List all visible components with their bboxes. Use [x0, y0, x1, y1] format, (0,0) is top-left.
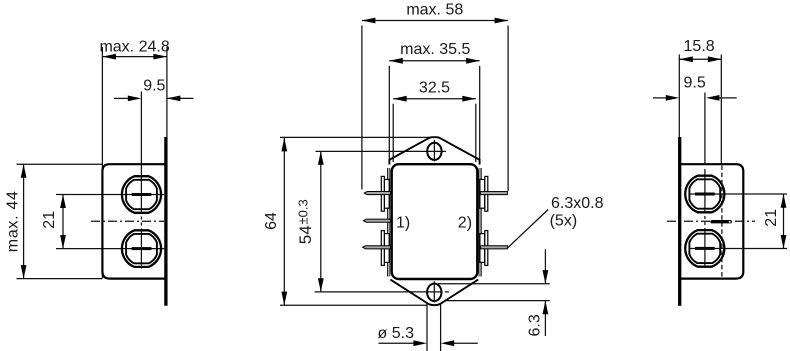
- left view: dimension line 21 with arrowheads: [62, 195, 64, 249]
- right view: extension line upper socket center: [690, 193, 787, 195]
- center view: hole diameter extension line right: [440, 303, 442, 351]
- left view: extension line body top: [17, 163, 103, 165]
- center view: extension line bottom hole center: [315, 291, 443, 293]
- svg-text:max. 58: max. 58: [406, 2, 463, 19]
- center view: flange wrap line left: [387, 168, 389, 277]
- center view: top mounting tab outline: [389, 137, 479, 164]
- left view: extension line at flange right face: [166, 47, 168, 140]
- right view: lower socket slot bar: [695, 247, 715, 250]
- center view: extension line 6.3 bottom: [446, 300, 550, 302]
- svg-text:21: 21: [763, 209, 780, 227]
- left view: extension line upper socket center: [56, 194, 164, 196]
- left view: dimension line 9.5 right arrow: [167, 97, 194, 99]
- center view: upper left terminal bracket: [384, 179, 389, 208]
- right view: extension line 15.8 right: [720, 55, 722, 164]
- center view: filter body outline: [392, 164, 478, 279]
- right view: upper socket outer outline: [685, 176, 724, 213]
- left view: mounting flange plate: [164, 137, 167, 306]
- center view: dimension line max. 35.5 with arrowheads: [389, 60, 479, 62]
- svg-text:9.5: 9.5: [143, 77, 165, 94]
- center view: extension line right pin: [507, 26, 509, 192]
- left view: upper socket outer outline: [122, 176, 161, 213]
- svg-text:ø 5.3: ø 5.3: [378, 325, 415, 342]
- center view: top mounting hole: [427, 143, 441, 160]
- left view: upper socket slot bar: [132, 193, 152, 196]
- right view: extension line lower socket center: [690, 248, 787, 250]
- right view: dimension line 21 with arrowheads: [783, 194, 785, 248]
- center view: upper left terminal blade: [381, 176, 384, 211]
- center view: flange wrap line right: [480, 168, 482, 277]
- center view: left pin: [363, 219, 390, 222]
- right view: mounting flange plate: [678, 137, 681, 306]
- center view: right pin: [481, 246, 508, 249]
- center view: left pin: [363, 246, 391, 249]
- right view: hidden edge dashed line: [721, 166, 723, 279]
- center view: dimension line 64 with arrowheads: [283, 138, 285, 305]
- center view: dimension line 54 with arrowheads: [320, 151, 322, 292]
- center view: extension line top hole center: [316, 150, 446, 152]
- center view: leader line terminal size: [508, 210, 549, 249]
- left view: horizontal centerline dash-dot: [91, 220, 164, 222]
- center view: lower right terminal bracket: [480, 234, 485, 263]
- right view: dimension line 15.8 with arrowheads: [679, 58, 721, 60]
- center view: dimension arrow ø 5.3 left: [379, 342, 415, 344]
- left view: dimension line 9.5 left arrow: [114, 97, 129, 99]
- left view: filter body outline: [102, 164, 165, 278]
- center view: bottom mounting hole: [427, 284, 441, 301]
- left view: lower socket slot bar: [132, 247, 152, 250]
- center view: right pin: [481, 192, 508, 195]
- center view: extension line body right: [475, 104, 477, 162]
- left view: dimension line max. 24.8 with arrowheads: [102, 56, 166, 58]
- center view: dimension arrow ø 5.3 right: [453, 342, 478, 344]
- svg-text:6.3: 6.3: [527, 314, 544, 336]
- center view: dimension line max. 58 with arrowheads: [362, 20, 508, 22]
- svg-text:6.3x0.8: 6.3x0.8: [551, 195, 604, 212]
- left view: socket centerline vertical: [140, 92, 142, 214]
- center view: bottom hole vertical centerline tick: [433, 281, 435, 302]
- center view: extension line tab top: [280, 136, 430, 138]
- center view: upper right terminal blade: [485, 176, 488, 211]
- right view: socket centerline vertical: [704, 93, 706, 166]
- right view: middle ground pin end-on: [710, 220, 732, 223]
- center view: extension line flange left: [388, 66, 390, 159]
- center view: bottom tab outline slopes and tip arc: [390, 280, 478, 306]
- left view: extension line at body left edge: [101, 47, 103, 278]
- right view: upper socket inner outline: [689, 179, 720, 208]
- svg-text:max. 24.8: max. 24.8: [99, 39, 169, 56]
- svg-text:max. 35.5: max. 35.5: [400, 41, 470, 58]
- svg-text:(5x): (5x): [550, 212, 578, 229]
- right view: upper socket slot bar: [695, 193, 715, 196]
- center view: top hole vertical centerline tick: [433, 140, 435, 162]
- right view: lower socket outer outline: [685, 230, 724, 267]
- center view: lower right terminal blade: [485, 231, 488, 266]
- left view: extension line lower socket center: [56, 248, 164, 250]
- right view: extension line flange left face: [678, 55, 680, 140]
- svg-text:64: 64: [263, 212, 280, 230]
- svg-text:21: 21: [41, 211, 58, 229]
- center view: extension line body left: [392, 104, 394, 162]
- right view: lower socket inner outline: [689, 234, 720, 263]
- svg-text:32.5: 32.5: [419, 80, 450, 97]
- center view: extension line 6.3 top tangent to hole: [438, 283, 550, 285]
- center view: extension line flange right: [479, 66, 481, 161]
- center view: extension line left pins: [361, 26, 363, 190]
- right view: horizontal centerline dash-dot: [667, 220, 755, 222]
- svg-text:2): 2): [458, 214, 472, 231]
- left view: extension line body bottom: [17, 278, 103, 280]
- svg-text:max. 44: max. 44: [5, 190, 22, 252]
- center view: left pin: [364, 192, 390, 195]
- left view: lower socket inner outline: [126, 234, 157, 263]
- center view: extension line tab bottom: [280, 304, 427, 306]
- left view: upper socket inner outline: [126, 180, 157, 209]
- center view: lower left terminal blade: [381, 231, 384, 266]
- center view: dimension line 6.3 with arrowheads: [544, 249, 546, 283]
- center view: hole diameter extension line left: [426, 303, 428, 351]
- svg-text:1): 1): [396, 214, 410, 231]
- left view: dimension line max. 44 with arrowheads: [23, 164, 25, 278]
- center view: upper right terminal bracket: [480, 179, 485, 208]
- svg-text:9.5: 9.5: [684, 75, 706, 92]
- center view: lower left terminal bracket: [384, 234, 389, 263]
- left view: lower socket outer outline: [122, 230, 161, 267]
- center view: dimension line 32.5 with arrowheads: [393, 98, 476, 100]
- svg-text:15.8: 15.8: [684, 38, 715, 55]
- right view: filter body outline: [681, 164, 743, 278]
- right view: dimension line 9.5 right arrow: [719, 97, 737, 99]
- right view: dimension line 9.5 left arrow: [653, 97, 667, 99]
